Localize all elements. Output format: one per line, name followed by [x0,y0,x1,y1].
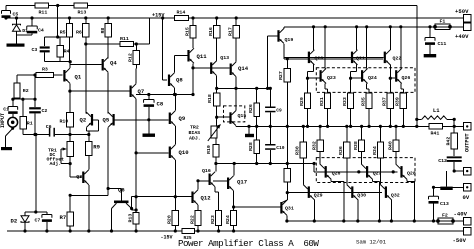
svg-text:Sam 12/01: Sam 12/01 [356,239,387,246]
wire Q13 collector to R16 [216,38,218,60]
wire output bus y=126.4 [236,125,417,127]
transistor Q19 [277,30,279,42]
wire +50V rail y=18 right of R14 [189,17,464,19]
svg-text:Power Amplifier Class A 60W: Power Amplifier Class A 60W [178,238,319,249]
wire Q10 base [136,152,169,154]
node Q7 base tap [68,90,71,93]
wire upper base bus y=57.4 [284,56,384,58]
transistor Q32 [385,186,387,198]
svg-text:TR2: TR2 [190,124,199,130]
wire Q1 collector down [69,83,71,112]
connector +50V [464,14,472,21]
svg-text:C1: C1 [3,107,9,113]
svg-text:R42: R42 [446,137,452,146]
capacitor C7 [46,212,48,215]
svg-text:OUTPUT: OUTPUT [464,133,470,152]
wire Q17 collector up [233,164,235,176]
wire Q27 collector to -40V rail [372,179,374,181]
wire Q22 collector to rail [389,27,391,50]
node Q10 base feed [135,151,138,154]
transistor Q14 [230,64,232,76]
transistor Q10 [169,147,171,159]
svg-text:Q5: Q5 [103,117,110,124]
wire R18 to TR2 [216,106,218,126]
svg-text:R22: R22 [189,215,195,224]
trimmer TR2 [211,126,217,138]
wire Q21 emitter jog to R33 [356,65,358,72]
svg-text:Q32: Q32 [391,193,400,199]
wire +15V/+50V rail y=18 left of R14 [6,17,175,19]
wire Q11 collector to R15 [192,38,194,48]
node Q31 base line tap [232,205,235,208]
svg-text:Q17: Q17 [237,179,247,186]
transistor Q15 [229,112,231,124]
transistor Q3 [82,172,84,184]
wire mid bias line y=94.5 [136,94,193,96]
svg-text:R18: R18 [207,94,213,103]
wire Q23 emitter to R31 [324,83,326,89]
svg-text:R7: R7 [60,214,67,221]
wire Q9 emitter to Q10 [174,126,176,145]
node Q3 rail [87,229,90,232]
resistor R24 [231,211,237,226]
resistor R22 [195,211,201,226]
node C2 crossing [33,98,36,101]
wire TR1 to Q3 base [69,164,71,177]
transistor Q28 [400,166,402,178]
wire -15V/-50V bottom rail y=231 [7,230,464,232]
resistor R11 (VAS feed) [86,43,120,45]
svg-text:R2: R2 [23,88,29,94]
wire Q12 collector up [197,181,199,190]
resistor R42 [453,126,455,133]
connector speaker return [464,167,472,175]
transistor Q1 [63,70,65,82]
svg-text:Q10: Q10 [179,149,190,156]
transistor Q27 [366,166,368,178]
wire Q29 collector to -40V rail [313,200,315,221]
capacitor C3 [40,46,50,48]
wire C3 stems [44,37,46,46]
wire Q24 base [351,77,361,79]
wire input top node y=99.2 [13,98,35,100]
node R12 top [135,42,138,45]
diode D2 zener [24,212,26,216]
wire Q25 collector to -40V rail [330,179,332,181]
node feedback tap on rail1 [56,4,59,7]
wire Q4 emitter to R8 [107,57,109,59]
node R27 top [286,57,289,60]
wire Q5 base line to Q9 [115,119,169,121]
svg-text:Q31: Q31 [285,206,294,212]
wire -40V rail y=221 [287,220,464,222]
capacitor C13 [433,187,435,196]
svg-text:Q30: Q30 [357,193,366,199]
wire Q19 collector to rail [283,27,285,29]
resistor R15 [192,18,194,26]
svg-text:Q12: Q12 [201,195,212,202]
wire Q26 emitter to R39 [400,83,402,89]
input jack [8,117,18,127]
capacitor C4 [27,26,37,29]
svg-text:Q22: Q22 [393,56,402,62]
wire Q2 collector to signal line [88,131,90,135]
wire Q8 collector up [174,56,176,73]
ground bar C11 [424,54,437,57]
svg-text:C12: C12 [438,158,447,164]
transistor Q17 [227,178,229,190]
wire R7 top line [70,194,108,196]
wire Q15 base [217,116,230,118]
node Q12 base line crossing [135,195,138,198]
resistor R7 [69,195,71,212]
capacitor C12 [447,156,462,158]
resistor R29 [304,93,310,109]
connector OUTPUT [464,123,472,131]
node R27 lower bus crossing [286,162,289,165]
svg-text:Adj.: Adj. [50,161,62,167]
svg-text:R3: R3 [42,67,48,73]
wire Q2 base-collector tie [93,119,98,121]
capacitor C8 [148,95,150,100]
svg-text:Q8: Q8 [176,77,183,84]
node Q1 emitter [69,60,72,63]
transistor Q11 [187,50,189,62]
svg-text:R33: R33 [342,97,348,106]
resistor R28z [256,126,258,140]
svg-text:R13: R13 [128,214,134,223]
wire input jack to ground [11,127,14,130]
svg-text:C7: C7 [35,218,41,224]
svg-text:R39: R39 [395,97,401,106]
wire R4/C3 bottom node to Q1 emitter [45,61,70,63]
transistor Q6 (rotated) [114,201,129,204]
resistor R20 [174,197,176,211]
inductor L1 [417,118,422,120]
svg-text:Q1: Q1 [75,74,82,81]
svg-text:R1: R1 [27,121,33,127]
svg-text:R31: R31 [319,97,325,106]
resistor R6 [85,18,87,24]
svg-text:Q13: Q13 [220,55,229,61]
wire +15V column to Q8 base [162,18,164,80]
wire lower row base bus y=192.6 [287,192,382,194]
resistor R36 [346,126,348,142]
wire Q16 emitter down to R23 [214,187,216,192]
svg-text:R16: R16 [208,27,214,36]
resistor R39 [400,93,406,109]
resistor R4 [59,37,61,46]
transistor Q8 [168,75,170,87]
wire Q5 collector down [107,128,109,196]
resistor R38 [361,126,363,140]
svg-text:R28: R28 [248,142,254,151]
wire signal line y=134.5 [23,134,49,136]
wire output bus to output terminal [417,125,464,127]
capacitor C10 [269,126,271,143]
connector -50V [464,227,472,235]
wire Q19 base column [267,36,269,88]
svg-text:R27: R27 [278,71,284,80]
svg-text:Q28: Q28 [407,171,416,177]
wire D1-C4 to ground [17,34,33,36]
svg-text:R24: R24 [225,215,231,224]
svg-text:Q20: Q20 [315,56,324,62]
resistor R28 [286,126,288,168]
wire D1 column [16,18,18,24]
resistor R30 [302,126,304,142]
svg-text:Q7: Q7 [138,88,145,95]
node C4 rail2 [30,16,33,19]
wire Q1 emitter up [69,62,71,68]
svg-text:L1: L1 [433,107,440,114]
ground bar top-left [7,44,25,47]
svg-text:C10: C10 [276,145,285,151]
diode D1 zener [13,24,21,25]
wire Q11 emitter down [192,63,194,94]
wire TR1 wiper [60,149,62,164]
resistor R17 [235,18,237,26]
transistor Q30 [351,186,353,198]
wire -15V R25 labels [182,229,195,234]
svg-text:INPUT: INPUT [0,113,6,128]
resistor R27 [286,59,288,69]
wire Q16 collector up [215,164,217,172]
svg-text:C13: C13 [440,201,449,207]
resistor R40 [395,126,397,140]
transistor Q16 [209,174,211,186]
capacitor C2 [34,75,36,107]
svg-text:F1: F1 [440,19,446,25]
svg-text:R20: R20 [167,215,173,224]
svg-text:R32: R32 [312,141,318,150]
svg-text:R38: R38 [353,141,359,150]
node C2 tap [33,73,36,76]
wire Q12 base line [132,196,192,198]
ground stub on output bus [248,126,250,133]
svg-text:Q2: Q2 [80,117,87,124]
wire -15V feed column [35,135,37,213]
wire Q16 base [198,180,209,182]
wire Q3 emitter to rail [88,185,90,231]
svg-text:Q14: Q14 [238,65,249,72]
wire Q9 collector up [174,95,176,111]
resistor R14 [175,15,189,20]
wire C5 column x=6 [5,6,7,11]
resistor R41 in line [429,124,443,129]
svg-text:R10: R10 [60,119,69,125]
svg-text:R36: R36 [338,146,344,155]
transistor Q4 [102,59,104,71]
transistor Q13 [210,62,212,74]
wire Q32 collector to -40V rail [390,200,392,221]
svg-text:C11: C11 [438,41,447,47]
wire R3 to Q1 base [54,74,63,76]
capacitor C1 [12,99,14,106]
wire Q7 base [70,90,130,92]
wire L1 right leg [453,119,455,126]
wire R2 top to R3 [17,74,36,76]
svg-text:R13: R13 [78,10,87,16]
transistor Q2 [91,114,93,126]
svg-text:D2: D2 [11,218,18,225]
transistor Q25 [325,166,327,178]
resistor R8 [107,18,109,24]
svg-text:-40V: -40V [454,211,468,218]
wire Q14 emitter down to drive node [235,77,237,89]
wire +40V rail y=26.8 [284,26,464,28]
ground bar C8 [148,120,150,134]
wire Q17 base [213,180,227,182]
svg-text:Q4: Q4 [110,60,117,67]
node D1 rail2 [15,16,18,19]
svg-text:R11: R11 [120,36,129,42]
wire Q6 left lead to rail [111,209,113,232]
resistor R11 [35,3,49,8]
resistor R31 [325,93,331,109]
transistor Q31 [280,202,282,214]
svg-text:+15V: +15V [152,12,165,18]
dashed box lower power bank [316,158,415,183]
resistor R23 [216,211,222,226]
svg-text:Q19: Q19 [285,37,294,43]
transistor Q9 [169,113,171,125]
resistor R37 [387,93,393,109]
wire D2/C7 top link [25,211,47,213]
wire Q21 collector to rail [356,27,358,50]
wire R12 junction up to rail2 [136,43,149,45]
node Q6 rail [110,229,113,232]
connector -40V [464,217,472,225]
wire Q24 emitter to R35 [366,83,368,89]
wire Q8 emitter down [174,88,176,95]
svg-text:Q23: Q23 [327,75,336,81]
wire upper base bus y=58.8 [284,58,383,60]
resistor R16 [216,18,218,26]
svg-text:R19: R19 [206,145,212,154]
svg-text:R37: R37 [382,97,388,106]
svg-text:R5: R5 [60,30,66,36]
resistor R18 [216,88,218,93]
svg-text:R29: R29 [299,97,305,106]
svg-text:R40: R40 [387,141,393,150]
connector +40V [464,23,472,31]
capacitor C11 [429,27,431,38]
resistor R2 [14,83,20,98]
svg-text:C3: C3 [32,47,38,53]
svg-text:Q9: Q9 [179,115,186,122]
wire drive line y=88.4 [217,87,271,89]
dashed box upper power bank [316,68,415,93]
wire Q15 collector up [235,88,237,110]
wire Q7 emitter column down [135,99,137,212]
svg-text:Q6: Q6 [118,187,125,194]
resistor R33 [348,93,354,109]
wire Q4 base [70,64,101,66]
svg-text:Q26: Q26 [402,75,411,81]
wire Q23 base [308,77,320,79]
svg-text:Q21: Q21 [356,56,365,62]
wire Q20 emitter jog to R29 [313,65,315,72]
node R7 rail [69,229,72,232]
svg-text:R26: R26 [248,104,254,113]
svg-text:C2: C2 [42,108,48,114]
wire R4/C3 top node [57,6,59,38]
svg-text:R23: R23 [210,215,216,224]
resistor R26 [256,88,258,103]
transistor Q5 [113,114,115,126]
svg-text:Q16: Q16 [202,168,211,174]
resistor R9 [88,135,90,142]
resistor R35 [366,93,372,109]
ground bar input [1,147,12,150]
svg-text:R6: R6 [76,30,82,36]
wire Q24 collector to rail [366,27,368,69]
resistor R34 [379,126,381,142]
svg-text:C8: C8 [157,101,164,108]
wire right vertical from top rail to output bus [416,6,418,127]
wire Q30 collector to -40V rail [357,200,359,221]
svg-text:+40V: +40V [455,33,469,40]
node lower base bus feed [286,191,289,194]
node R13b rail [135,229,138,232]
transistor Q23 [320,70,322,82]
wire lower drive line y=163.5 [216,163,314,165]
transistor Q29 [308,186,310,198]
svg-text:-15V: -15V [161,235,173,241]
wire Q11 base [175,55,188,57]
resistor R1 [22,99,24,116]
svg-text:C9: C9 [276,107,282,113]
wire Q31 emitter to rail [286,216,288,222]
svg-text:+50V: +50V [455,8,469,15]
svg-text:F2: F2 [442,213,448,219]
resistor R13 [74,3,88,8]
dashed box Q15 [224,106,245,122]
wire Q26 base [390,77,395,79]
svg-text:R4: R4 [64,49,70,55]
trimmer TR1 [69,135,71,142]
svg-text:R35: R35 [361,97,367,106]
transistor Q26 [395,70,397,82]
wire Q6 right lead to R13b [131,209,133,211]
svg-text:R14: R14 [177,10,186,16]
svg-text:Q29: Q29 [314,193,323,199]
capacitor C9 [269,88,271,106]
connector 0V [464,184,472,192]
svg-text:R15: R15 [184,27,190,36]
svg-text:R30: R30 [295,146,301,155]
wire R28 to Q31 [282,200,287,202]
wire Q31 base line [234,206,281,208]
wire Q13 emitter down to drive line [216,76,218,89]
transistor Q20 [308,52,310,64]
wire top feedback rail y=5 [6,5,417,7]
wire Q26 collector to rail [400,27,402,69]
node bus corner [415,125,418,128]
wire to ground bar [446,171,448,187]
transistor Q24 [361,70,363,82]
svg-text:C5: C5 [13,12,19,18]
wire Q23 collector to rail [324,27,326,69]
transistor Q22 [384,52,386,64]
resistor R10 [67,113,74,127]
node Q15 base [215,116,218,119]
resistor R13 (lower) [133,212,139,224]
node speaker return [453,169,456,172]
wire Q17 emitter down to R24 [233,191,235,211]
fuse F1 [435,24,450,30]
